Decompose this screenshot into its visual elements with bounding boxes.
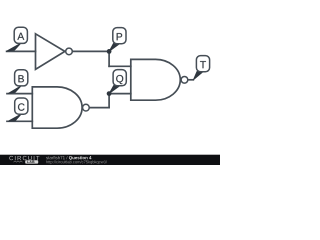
wire A to NOT input [7, 50, 36, 52]
wire B to NAND U3 top input [7, 93, 32, 95]
flag C [8, 98, 28, 121]
CircuitLab logo word CIRCUIT [9, 156, 13, 160]
wire NOT output to node P junction [73, 50, 109, 52]
flag A [6, 27, 27, 51]
wire P junction down [108, 51, 110, 66]
NAND gate U3 body [32, 87, 82, 128]
flag P [109, 28, 126, 52]
CircuitLab logo LAB box [25, 160, 38, 163]
NAND gate U3 bubble [83, 104, 90, 111]
junction node P dot [107, 49, 112, 54]
wire NAND U2 output to T [189, 79, 194, 81]
wire Q junction to NAND U2 bottom input [109, 93, 131, 95]
wire C to NAND U3 bottom input [7, 120, 32, 122]
flag Q [109, 70, 126, 94]
wire NAND U3 output to Q vertical [90, 107, 109, 109]
NOT gate U1 bubble [66, 48, 73, 55]
flag B [8, 70, 28, 94]
wire to NAND U2 top input [109, 65, 131, 67]
NAND gate U2 bubble [181, 76, 188, 83]
wire Q junction down to U3 output row [108, 94, 110, 108]
junction node Q dot [107, 91, 112, 96]
CircuitLab logo waveform [14, 161, 23, 162]
footer text line 1 [46, 157, 48, 159]
NOT gate U1 triangle [36, 34, 65, 70]
flag T [193, 56, 209, 80]
footer text line 2 [46, 160, 48, 163]
footer bar background [0, 155, 220, 165]
NAND gate U2 body [131, 59, 180, 100]
